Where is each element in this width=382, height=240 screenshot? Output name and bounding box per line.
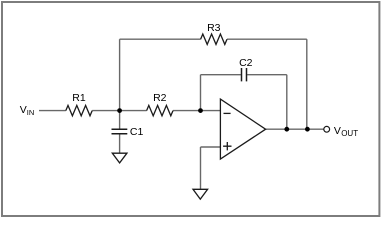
junction node at output / C2 return	[284, 127, 289, 132]
op-amp U1 triangle	[220, 99, 265, 159]
capacitor C2 plates	[242, 68, 247, 81]
wire: R1 to R2 through node A	[92, 110, 146, 112]
wire: C2 loop left vertical	[200, 75, 202, 111]
svg-text:IN: IN	[27, 108, 35, 117]
op-amp plus sign	[223, 142, 231, 150]
op-amp minus sign	[224, 112, 231, 114]
junction node at output / R3 return	[305, 127, 310, 132]
wire: op-amp output to VOUT terminal	[266, 128, 324, 130]
resistor R1	[66, 105, 92, 115]
wire: feedback left vertical (node A up to R3 row)	[119, 39, 121, 110]
wire: C2 top left segment	[201, 74, 241, 76]
ground (below op-amp + input)	[193, 189, 208, 199]
resistor R3	[201, 34, 227, 44]
junction node A (R1/R2/C1/feedback)	[117, 108, 122, 113]
capacitor C1 plates	[112, 129, 128, 134]
svg-text:V: V	[334, 125, 341, 137]
svg-text:R3: R3	[207, 22, 221, 34]
wire: top feedback left segment to R3	[120, 38, 201, 40]
ground (below C1)	[112, 153, 127, 163]
wire: VIN to R1	[39, 110, 66, 112]
resistor R2	[147, 105, 173, 115]
wire: C2 top right segment	[247, 74, 287, 76]
wire: R3 loop right vertical down to output	[306, 39, 308, 129]
svg-text:C1: C1	[130, 126, 144, 138]
wire: C1 bottom plate down to ground	[119, 134, 121, 153]
svg-text:V: V	[20, 104, 27, 116]
wire: non-inverting input down to ground	[200, 147, 202, 189]
output terminal circle	[324, 126, 330, 132]
wire: non-inverting input horizontal	[201, 146, 221, 148]
wire: C2 loop right vertical down to output	[286, 75, 288, 130]
wire: R2 to op-amp inverting input	[173, 110, 220, 112]
svg-text:OUT: OUT	[341, 129, 358, 138]
svg-text:R2: R2	[153, 92, 167, 104]
wire: top feedback right segment from R3	[227, 38, 307, 40]
wire: node A down to C1 top plate	[119, 111, 121, 129]
junction node at inverting input / C2 branch	[198, 108, 203, 113]
svg-text:C2: C2	[239, 57, 253, 69]
svg-text:R1: R1	[72, 92, 86, 104]
